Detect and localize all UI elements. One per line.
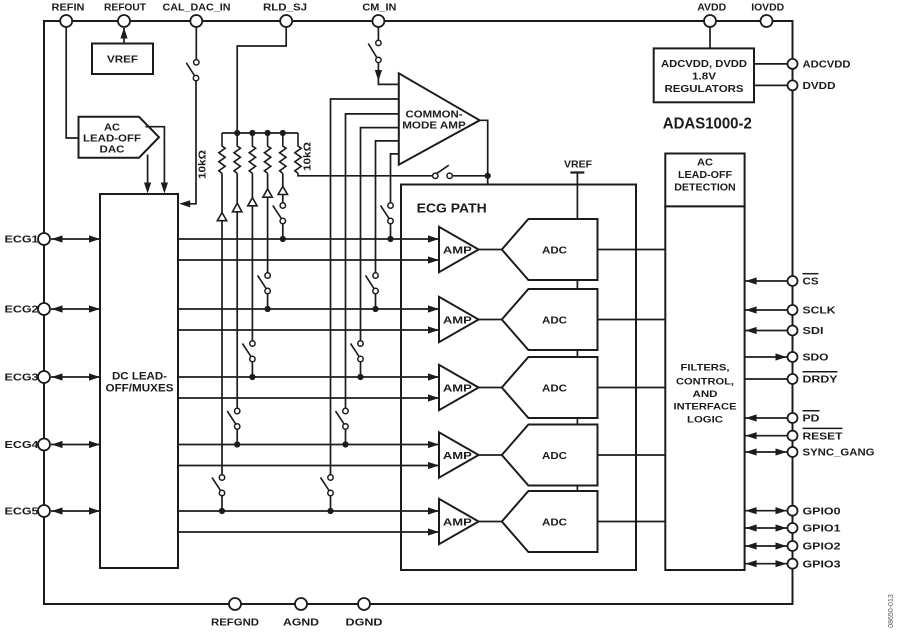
pin CM_IN (372, 15, 384, 27)
wire ECG5 pin to DC lead-off mux (bidirectional) (51, 507, 100, 514)
svg-text:LEAD-OFF: LEAD-OFF (678, 170, 732, 181)
svg-text:AMP: AMP (443, 451, 472, 462)
junction B ch2 (372, 306, 378, 312)
svg-text:SYNC_GANG: SYNC_GANG (803, 447, 875, 459)
wire ECG5 line b to AMP (178, 528, 439, 535)
label CM_IN (362, 2, 396, 14)
wire CM_IN pin to switch (377, 21, 379, 40)
svg-text:AND: AND (693, 389, 718, 400)
wire R2 to buffer triangle ch4 (236, 173, 238, 203)
svg-text:GPIO1: GPIO1 (803, 523, 841, 535)
wire switch to ECG4 line (A) (236, 429, 238, 444)
wire ECG1 line a to AMP (178, 235, 439, 242)
pin AGND (295, 598, 307, 610)
svg-text:VREF: VREF (564, 158, 593, 170)
svg-text:REGULATORS: REGULATORS (665, 84, 744, 95)
svg-text:RESET: RESET (803, 430, 844, 442)
label GPIO3 (803, 558, 841, 570)
svg-text:ADC: ADC (542, 244, 567, 256)
wire ECG2 pin to DC lead-off mux (bidirectional) (51, 305, 100, 312)
wire R1 to buffer triangle ch5 (221, 173, 223, 212)
junction A ch2 (265, 306, 271, 312)
pin GPIO2 (745, 541, 798, 551)
switch SA2 (258, 273, 271, 294)
svg-text:SCLK: SCLK (803, 305, 836, 317)
label SDO (803, 352, 829, 364)
svg-text:ADC: ADC (542, 450, 567, 462)
junction on summing bus x=267.6 (265, 130, 271, 136)
svg-text:ADCVDD, DVDD: ADCVDD, DVDD (661, 59, 747, 70)
ADC2 block (502, 289, 598, 350)
op-amp AMP1 (439, 227, 479, 272)
wire DAC output 1 (arrow into mux) (144, 155, 151, 194)
label VREF box (107, 54, 139, 66)
svg-text:SDI: SDI (803, 325, 824, 337)
label ECG5 (5, 506, 39, 518)
label PD (803, 411, 820, 425)
label AMP5 (443, 518, 472, 529)
wire ADC1 to filters (598, 249, 666, 251)
pin IOVDD (761, 15, 773, 27)
svg-text:GPIO2: GPIO2 (803, 541, 841, 553)
wire switch to ECG3 line (B) (360, 362, 362, 377)
svg-text:DETECTION: DETECTION (674, 182, 736, 193)
label RLD_SJ (263, 2, 307, 14)
DC lead-off / muxes box (100, 194, 178, 568)
svg-text:ECG1: ECG1 (5, 234, 39, 246)
resistor R1 10k (219, 133, 225, 173)
wire AMP4 to ADC4 (479, 454, 504, 456)
svg-text:DAC: DAC (100, 144, 125, 156)
wire switch to ECG2 line (A) (267, 294, 269, 309)
switch S_RLD on RLD line (433, 165, 453, 178)
svg-text:GPIO3: GPIO3 (803, 558, 841, 570)
wire regulators to ADCVDD pin (754, 63, 788, 65)
pin CS (745, 276, 798, 286)
pin ECG2 (38, 303, 50, 315)
wire R6 to RLD switch (298, 173, 433, 175)
wire ECG2 line a to AMP (178, 305, 439, 312)
ECG PATH block (401, 185, 636, 571)
wire ECG5 line a to AMP (178, 507, 439, 514)
AC lead-off DAC pentagon U_DAC (79, 117, 160, 158)
pin DVDD (788, 80, 798, 90)
label CS (803, 274, 819, 288)
AC lead-off detection box (665, 154, 744, 207)
wire switch to ECG5 line (B) (330, 496, 332, 511)
label ECG1 (5, 234, 39, 246)
label ADC1 (542, 244, 567, 256)
svg-text:ADC: ADC (542, 516, 567, 528)
pin SYNC_GANG (745, 447, 798, 457)
junction A ch5 (219, 508, 225, 514)
label AMP2 (443, 316, 472, 327)
op-amp AMP5 (439, 499, 479, 544)
svg-text:10kΩ: 10kΩ (303, 142, 314, 171)
label AGND (283, 617, 319, 629)
svg-text:REFGND: REFGND (211, 617, 259, 629)
regulators box (654, 48, 754, 102)
svg-text:AVDD: AVDD (697, 2, 726, 14)
resistor R4 10k (264, 133, 270, 173)
svg-text:10kΩ: 10kΩ (198, 150, 209, 179)
wire RLD switch to CM amp output node (452, 175, 487, 177)
wire CM amp sense ch3 (361, 128, 399, 341)
svg-text:CM_IN: CM_IN (362, 2, 396, 14)
switch SB2 (366, 273, 379, 294)
junction on summing bus x=237.2 (234, 130, 240, 136)
pin DGND (358, 598, 370, 610)
label REFGND (211, 617, 259, 629)
label GPIO1 (803, 523, 841, 535)
label AMP3 (443, 384, 472, 395)
node VREF supply (570, 173, 584, 492)
svg-text:CAL_DAC_IN: CAL_DAC_IN (163, 2, 231, 14)
svg-text:REFIN: REFIN (52, 2, 85, 14)
label ECG4 (5, 439, 39, 451)
pin RLD_SJ (280, 15, 292, 27)
filters control interface logic box (665, 206, 744, 570)
wire REFIN to AC lead-off DAC (66, 21, 78, 138)
label VREF node (564, 158, 593, 170)
label common-mode amp (402, 110, 466, 132)
wire AMP5 to ADC5 (479, 521, 504, 523)
wire AMP3 to ADC3 (479, 387, 504, 389)
svg-text:ECG PATH: ECG PATH (417, 202, 487, 216)
wire AMP1 to ADC1 (479, 249, 504, 251)
label GPIO2 (803, 541, 841, 553)
svg-text:ADC: ADC (542, 314, 567, 326)
label ADCVDD (803, 59, 851, 71)
wire regulators to DVDD pin (754, 84, 788, 86)
resistor R3 10k (249, 133, 255, 173)
svg-text:AGND: AGND (283, 617, 319, 629)
pin REFOUT (118, 15, 130, 27)
junction A ch3 (249, 374, 255, 380)
pin PD (745, 413, 798, 423)
cal DAC buffer triangle ch5 (217, 213, 226, 221)
switch SB3 (351, 341, 364, 362)
wire ADC2 to filters (598, 319, 666, 321)
svg-text:OFF/MUXES: OFF/MUXES (106, 382, 174, 394)
svg-text:ADAS1000-2: ADAS1000-2 (663, 116, 752, 133)
ADC1 block (502, 219, 598, 280)
switch SA3 (242, 341, 255, 362)
wire RLD_SJ to resistor summing bus (237, 21, 286, 133)
wire CM amp sense ch2 (376, 141, 399, 273)
wire triangle to switch ch2 (A) (267, 197, 269, 273)
wire switch to ECG1 line (A) (282, 224, 284, 239)
label ADC2 (542, 314, 567, 326)
svg-text:IOVDD: IOVDD (751, 2, 784, 14)
svg-text:GPIO0: GPIO0 (803, 505, 841, 517)
label IOVDD (751, 2, 784, 14)
value label 10k left (198, 150, 209, 179)
pin REFGND (229, 598, 241, 610)
svg-text:DVDD: DVDD (803, 80, 836, 92)
label DGND (346, 617, 383, 629)
label regulators (661, 59, 747, 95)
svg-text:ADC: ADC (542, 382, 567, 394)
op-amp AMP3 (439, 365, 479, 410)
label figure number 08650-013 (888, 594, 895, 628)
pin GPIO0 (745, 506, 798, 516)
wire switch to ECG5 line (A) (221, 496, 223, 511)
junction B ch4 (342, 441, 348, 447)
cal DAC buffer triangle ch4 (233, 203, 242, 212)
switch S_CM on CM_IN (368, 40, 381, 62)
svg-text:DC LEAD-: DC LEAD- (112, 371, 167, 383)
label AMP4 (443, 451, 472, 462)
wire triangle to switch ch3 (A) (251, 206, 253, 341)
svg-text:CS: CS (803, 276, 819, 288)
chip outline border (44, 21, 793, 604)
pin SDI (745, 326, 798, 336)
cal DAC buffer triangle ch1 (278, 186, 287, 194)
svg-text:ECG2: ECG2 (5, 304, 39, 316)
label DVDD (803, 80, 836, 92)
pin ECG3 (38, 371, 50, 383)
wire R3 to buffer triangle ch3 (251, 173, 253, 197)
svg-text:AC: AC (697, 158, 713, 169)
pin REFIN (60, 15, 72, 27)
switch SA5 (212, 475, 225, 496)
pin SDO (745, 352, 798, 362)
pin AVDD (704, 15, 716, 27)
svg-text:REFOUT: REFOUT (104, 2, 147, 14)
label AMP1 (443, 246, 472, 257)
label filters control logic (674, 363, 737, 426)
label DRDY (803, 372, 838, 386)
VREF buffer box (92, 44, 153, 75)
label SDI (803, 325, 824, 337)
label REFOUT (104, 2, 147, 14)
wire ECG4 line b to AMP (178, 462, 439, 469)
wire CM_IN switch to common-mode amp (arrow down) (375, 63, 399, 85)
wire ECG1 pin to DC lead-off mux (bidirectional) (51, 235, 100, 242)
wire CAL_DAC_IN switch to DC lead-off mux (arrow left) (179, 81, 196, 208)
common-mode amp U_CM (399, 73, 480, 164)
wire triangle to switch ch5 (A) (221, 221, 223, 475)
switch SB5 (321, 475, 334, 496)
wire switch to ECG2 line (B) (375, 294, 377, 309)
wire CM amp output down to ECG path (480, 120, 488, 184)
wire AVDD to regulators (709, 21, 711, 48)
svg-text:SDO: SDO (803, 352, 829, 364)
junction on summing bus x=282.8 (280, 130, 286, 136)
junction B ch1 (387, 236, 393, 242)
wire ADC5 to filters (598, 521, 666, 523)
switch SB1 (381, 203, 394, 224)
pin ECG5 (38, 505, 50, 517)
pin SCLK (745, 305, 798, 315)
svg-text:PD: PD (803, 413, 820, 425)
pin CAL_DAC_IN (190, 15, 202, 27)
wire switch to ECG3 line (A) (251, 362, 253, 377)
ADC4 block (502, 425, 598, 486)
svg-text:DGND: DGND (346, 617, 383, 629)
pin GPIO3 (745, 559, 798, 569)
junction A ch4 (234, 441, 240, 447)
wire 10k ohm summing bus (222, 132, 298, 134)
svg-text:MODE AMP: MODE AMP (402, 121, 466, 132)
wire CM amp sense ch5 (331, 99, 399, 475)
junction B ch3 (357, 374, 363, 380)
wire ECG2 line b to AMP (178, 326, 439, 333)
label AC lead-off DAC (83, 122, 142, 156)
label ECG PATH (417, 202, 487, 216)
svg-text:1.8V: 1.8V (692, 72, 716, 83)
junction B ch5 (327, 508, 333, 514)
svg-text:FILTERS,: FILTERS, (681, 363, 730, 374)
wire R5 to buffer triangle ch1 (282, 173, 284, 186)
svg-text:ECG4: ECG4 (5, 439, 39, 451)
wire REFOUT to VREF box (arrow up) (120, 28, 127, 44)
junction on summing bus x=252.4 (249, 130, 255, 136)
svg-text:ADCVDD: ADCVDD (803, 59, 851, 71)
wire ECG3 line a to AMP (178, 373, 439, 380)
svg-text:ECG5: ECG5 (5, 506, 39, 518)
svg-text:LOGIC: LOGIC (687, 415, 723, 426)
wire ADC3 to filters (598, 387, 666, 389)
wire AMP2 to ADC2 (479, 319, 504, 321)
label ADC3 (542, 382, 567, 394)
wire ECG4 line a to AMP (178, 441, 439, 448)
svg-text:AMP: AMP (443, 316, 472, 327)
label GPIO0 (803, 505, 841, 517)
junction A ch1 (280, 236, 286, 242)
svg-text:08650-013: 08650-013 (888, 594, 895, 628)
resistor R6 10k (295, 133, 301, 173)
svg-text:INTERFACE: INTERFACE (674, 402, 737, 413)
wire CM amp sense ch1 (391, 154, 399, 203)
label SCLK (803, 305, 836, 317)
value label 10k right (303, 142, 314, 171)
cal DAC buffer triangle ch3 (248, 198, 257, 206)
label ADC4 (542, 450, 567, 462)
wire DAC output 2 (arrow into mux) (146, 127, 169, 194)
switch SA4 (227, 408, 240, 429)
op-amp AMP4 (439, 432, 479, 477)
switch S_CAL on CAL_DAC_IN (186, 60, 199, 81)
wire CAL_DAC_IN from pin to switch (195, 21, 197, 60)
wire ECG3 line b to AMP (178, 394, 439, 401)
label REFIN (52, 2, 85, 14)
wire switch to ECG1 line (B) (390, 224, 392, 239)
svg-text:CONTROL,: CONTROL, (676, 376, 734, 387)
cal DAC buffer triangle ch2 (263, 189, 272, 197)
label CAL_DAC_IN (163, 2, 231, 14)
label RESET (803, 428, 844, 442)
label ADC5 (542, 516, 567, 528)
label AVDD (697, 2, 726, 14)
pin ADCVDD (788, 59, 798, 69)
wire ECG4 pin to DC lead-off mux (bidirectional) (51, 441, 100, 448)
resistor R5 10k (280, 133, 286, 173)
junction CM output / RLD node (485, 173, 491, 179)
pin RESET (745, 431, 798, 441)
svg-text:AMP: AMP (443, 246, 472, 257)
pin DRDY (745, 374, 798, 384)
label AC lead-off detection (674, 158, 736, 194)
ADC3 block (502, 357, 598, 418)
wire ADC4 to filters (598, 454, 666, 456)
svg-text:AMP: AMP (443, 518, 472, 529)
svg-text:ECG3: ECG3 (5, 372, 39, 384)
svg-text:RLD_SJ: RLD_SJ (263, 2, 307, 14)
label DC lead-off muxes (106, 371, 174, 395)
ADC5 block (502, 491, 598, 552)
label ADAS1000-2 (663, 116, 752, 133)
svg-text:VREF: VREF (107, 54, 139, 66)
wire ECG3 pin to DC lead-off mux (bidirectional) (51, 373, 100, 380)
label ECG3 (5, 372, 39, 384)
svg-text:DRDY: DRDY (803, 374, 838, 386)
wire switch to ECG4 line (B) (345, 429, 347, 444)
switch SB4 (336, 408, 349, 429)
wire CM amp sense ch4 (346, 114, 399, 408)
op-amp AMP2 (439, 297, 479, 342)
wire triangle to switch ch1 (A) (282, 195, 284, 203)
resistor R2 10k (234, 133, 240, 173)
wire R4 to buffer triangle ch2 (267, 173, 269, 188)
svg-text:COMMON-: COMMON- (406, 110, 463, 121)
pin GPIO1 (745, 523, 798, 533)
svg-text:AMP: AMP (443, 384, 472, 395)
pin ECG1 (38, 233, 50, 245)
label SYNC_GANG (803, 447, 875, 459)
wire ECG1 line b to AMP (178, 256, 439, 263)
label ECG2 (5, 304, 39, 316)
wire triangle to switch ch4 (A) (236, 212, 238, 408)
switch SA1 (273, 203, 286, 224)
pin ECG4 (38, 439, 50, 451)
